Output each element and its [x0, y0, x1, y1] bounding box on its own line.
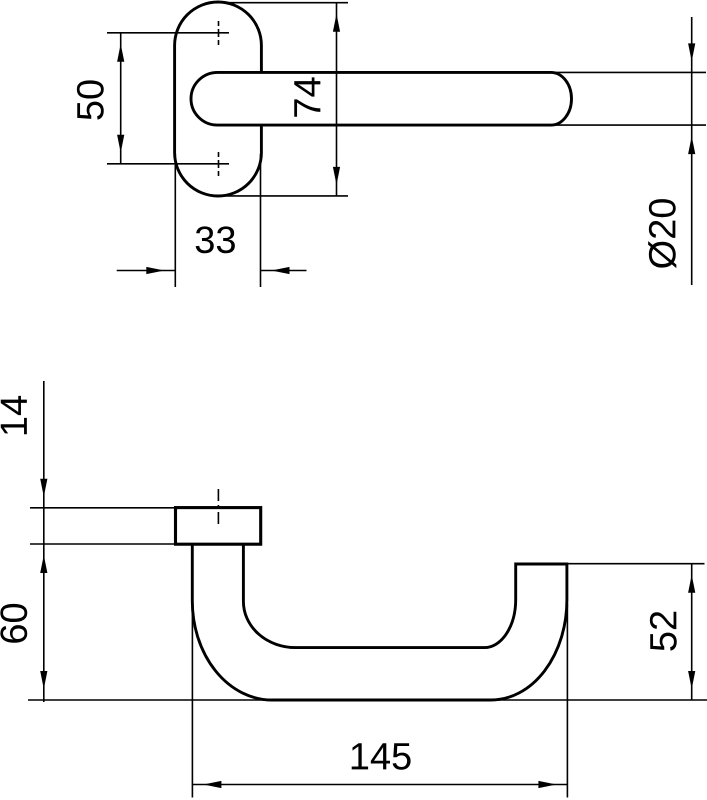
dim Ø20: extension lines: [550, 72, 706, 125]
dim 33: arrow pointing right: [146, 267, 164, 274]
dim 52: label: [650, 612, 677, 651]
spindle centre line (dash-dot): [217, 489, 219, 528]
rosette collar (side view rectangle): [176, 508, 261, 545]
dim 74: label: [294, 77, 320, 116]
dim 145: arrow pointing right: [538, 781, 556, 788]
dim 52: top extension line: [567, 563, 705, 565]
dim 74: arrow up: [333, 14, 340, 32]
dim 33: extension lines: [175, 154, 260, 287]
rosette oval outline (top view): [175, 2, 262, 196]
dim Ø20: arrow pointing down: [688, 43, 695, 61]
dim 145: label: [352, 743, 411, 770]
dim 52: arrow down: [688, 671, 695, 689]
dim 74: dimension line: [336, 3, 338, 196]
dim Ø20: dimension line: [691, 17, 693, 285]
dim 60: label: [0, 604, 27, 643]
handle outline (side view): [192, 544, 567, 700]
dim 50: label: [77, 80, 104, 119]
dim 33: dimension line left part: [117, 270, 176, 272]
dim 60: arrow pointing down: [40, 671, 47, 689]
dim 145: dimension line: [192, 784, 567, 786]
dim Ø20: arrow pointing up: [688, 136, 695, 154]
dim 74: arrow down: [333, 167, 340, 185]
dim 14: label: [1, 396, 27, 434]
dim 50: extension lines: [107, 33, 208, 164]
bottom screw hole centre cross: [208, 152, 229, 176]
dim 14: extension lines: [30, 508, 176, 544]
dim 145: arrow pointing left: [203, 781, 221, 788]
dim 50: arrow down: [117, 135, 124, 153]
top screw hole centre cross: [208, 21, 229, 45]
dim 50: dimension line: [120, 33, 122, 164]
dim 74: extension lines: [217, 3, 348, 196]
dim 14/60: arrow pointing up: [40, 555, 47, 573]
dim 33: label: [196, 226, 235, 253]
dim 52: dimension line: [691, 564, 693, 700]
dim 14: arrow pointing down: [40, 479, 47, 497]
dim 52: arrow up: [688, 575, 695, 593]
dim 14/60: shared dimension line: [43, 381, 45, 702]
dim 50: arrow up: [117, 44, 124, 62]
lever handle (top view, covers rosette edge): [191, 72, 572, 125]
dim 33: dimension line right part: [261, 270, 307, 272]
dim Ø20: label: [648, 199, 676, 268]
dim 60: bottom extension line: [28, 699, 707, 701]
dim 145: extension lines: [192, 603, 567, 798]
dim 33: arrow pointing left: [272, 267, 290, 274]
